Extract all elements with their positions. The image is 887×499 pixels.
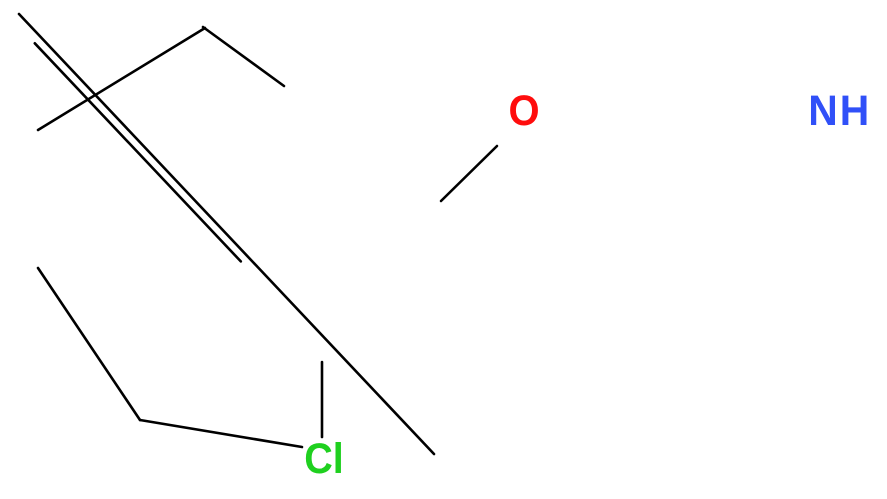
svg-text:Cl: Cl [304,434,344,482]
svg-text:O: O [508,85,539,134]
svg-text:NH: NH [808,86,871,134]
